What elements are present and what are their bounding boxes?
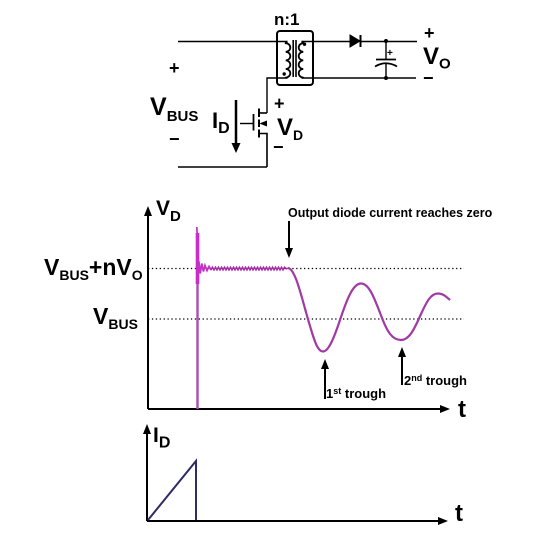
transformer primary winding xyxy=(286,42,291,79)
svg-text:VD: VD xyxy=(156,197,181,225)
junction node bottom xyxy=(384,76,388,80)
svg-text:VBUS: VBUS xyxy=(150,93,198,125)
capacitor C1 plates xyxy=(376,59,396,61)
Vd waveform flat ringing band xyxy=(211,267,288,270)
svg-text:ID: ID xyxy=(212,108,230,137)
MOSFET gate bar xyxy=(253,114,255,131)
svg-text:+: + xyxy=(424,23,435,43)
dotted level Vbus+nVo xyxy=(148,268,464,270)
Id plot x-axis xyxy=(147,520,441,522)
Id plot y-axis xyxy=(146,431,148,521)
MOSFET channel segments xyxy=(258,109,260,118)
wire primary bottom to MOSFET drain xyxy=(267,78,288,113)
annotation down arrow xyxy=(288,221,290,251)
1st trough arrow xyxy=(324,366,326,399)
wire secondary top to diode xyxy=(302,41,351,43)
MOSFET gate lead xyxy=(240,123,254,125)
capacitor C1 bottom lead xyxy=(385,64,387,78)
transformer secondary winding xyxy=(299,42,304,79)
svg-text:2nd trough: 2nd trough xyxy=(404,373,467,388)
wire secondary bottom to output - xyxy=(302,77,417,79)
svg-text:t: t xyxy=(458,396,466,423)
2nd trough arrow xyxy=(401,354,403,385)
Vd waveform turn-off edge (spike lower) xyxy=(196,284,198,409)
capacitor C1 top lead xyxy=(385,41,387,60)
svg-text:−: − xyxy=(423,68,434,88)
Vd waveform damped oscillation xyxy=(288,268,450,352)
svg-text:−: − xyxy=(169,129,180,149)
Id ramp waveform xyxy=(148,461,196,520)
Vd waveform spike tip xyxy=(196,227,199,236)
Vd waveform spike upper xyxy=(196,233,200,284)
svg-text:t: t xyxy=(455,500,463,527)
MOSFET source contact xyxy=(259,134,267,168)
svg-text:Output diode current reaches z: Output diode current reaches zero xyxy=(288,206,493,220)
wire bottom-left (Vbus- to source) xyxy=(178,166,267,168)
svg-text:n:1: n:1 xyxy=(274,10,300,29)
secondary polarity dot xyxy=(303,43,306,46)
diode D1 xyxy=(350,35,360,47)
svg-text:+: + xyxy=(274,94,285,114)
svg-text:VBUS: VBUS xyxy=(93,303,138,332)
Id current arrow xyxy=(235,100,238,146)
primary polarity dot xyxy=(283,72,286,75)
MOSFET Q1 drain contact xyxy=(259,112,267,114)
svg-text:ID: ID xyxy=(153,424,170,452)
Vd waveform post-spike ringing xyxy=(198,261,212,274)
svg-text:−: − xyxy=(273,137,284,157)
Vd plot x-axis xyxy=(148,408,443,410)
svg-text:1st trough: 1st trough xyxy=(326,386,386,401)
transformer T1 box xyxy=(277,31,313,85)
Vd plot y-axis xyxy=(147,213,149,409)
svg-text:+: + xyxy=(387,48,393,59)
svg-text:VBUS+nVO: VBUS+nVO xyxy=(44,254,143,283)
svg-text:+: + xyxy=(169,58,180,78)
wire diode to output + xyxy=(361,41,418,43)
wire top-left (Vbus+ to primary) xyxy=(178,41,288,43)
transformer core lines xyxy=(292,40,294,77)
dotted level Vbus xyxy=(148,318,464,320)
junction node top xyxy=(384,39,388,43)
MOSFET body lead with arrow xyxy=(261,123,267,125)
